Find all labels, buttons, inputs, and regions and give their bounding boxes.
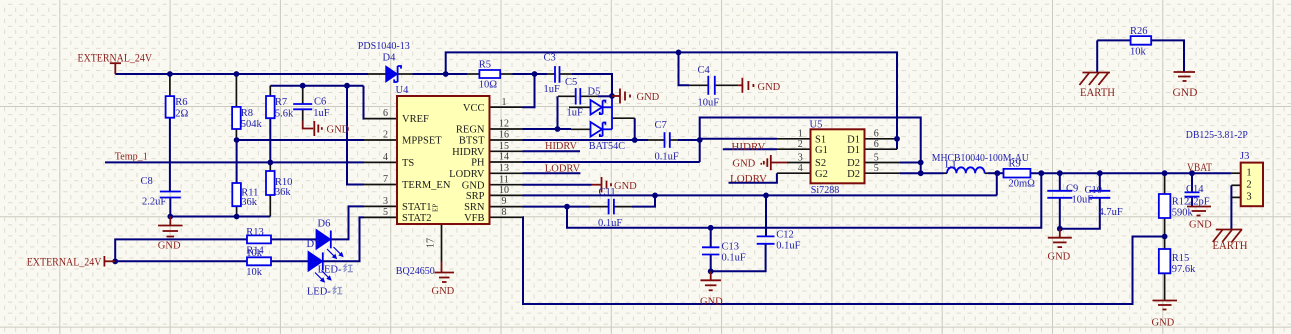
- svg-text:D2: D2: [847, 169, 860, 180]
- svg-text:97.6k: 97.6k: [1172, 264, 1196, 275]
- svg-text:R6: R6: [175, 97, 187, 108]
- svg-text:D4: D4: [383, 52, 397, 63]
- svg-text:U4: U4: [396, 85, 410, 96]
- svg-text:D6: D6: [318, 218, 331, 229]
- svg-text:15: 15: [499, 141, 509, 152]
- svg-text:R5: R5: [479, 59, 491, 70]
- svg-text:EARTH: EARTH: [1080, 87, 1115, 99]
- svg-text:10uF: 10uF: [698, 98, 720, 109]
- svg-text:GND: GND: [1173, 87, 1198, 99]
- svg-text:GND: GND: [1189, 220, 1212, 231]
- svg-text:Si7288: Si7288: [811, 185, 840, 196]
- svg-text:3: 3: [798, 152, 803, 163]
- svg-text:2Ω: 2Ω: [175, 108, 188, 119]
- svg-text:LED-: LED-: [307, 287, 331, 298]
- svg-text:1uF: 1uF: [313, 108, 330, 119]
- svg-text:EXTERNAL_24V: EXTERNAL_24V: [78, 51, 153, 65]
- svg-text:G1: G1: [815, 145, 828, 156]
- svg-text:R26: R26: [1130, 26, 1148, 37]
- svg-text:HIDRV: HIDRV: [731, 142, 765, 153]
- svg-text:R12: R12: [1172, 196, 1190, 207]
- svg-text:0.1uF: 0.1uF: [722, 253, 746, 264]
- svg-text:4: 4: [798, 163, 803, 174]
- svg-text:LODRV: LODRV: [730, 174, 767, 185]
- svg-text:8: 8: [502, 207, 507, 218]
- svg-text:10Ω: 10Ω: [479, 80, 498, 91]
- svg-text:14: 14: [499, 152, 509, 163]
- svg-text:C8: C8: [141, 176, 153, 187]
- svg-text:L1: L1: [945, 159, 957, 170]
- svg-text:C6: C6: [314, 96, 326, 107]
- svg-text:DB125-3.81-2P: DB125-3.81-2P: [1186, 130, 1248, 141]
- svg-text:13: 13: [499, 163, 509, 174]
- svg-text:C10: C10: [1085, 185, 1103, 196]
- svg-text:R7: R7: [275, 97, 287, 108]
- svg-text:GND: GND: [1048, 252, 1071, 263]
- svg-text:EARTH: EARTH: [1213, 240, 1248, 252]
- svg-text:R14: R14: [246, 246, 264, 257]
- svg-text:2: 2: [383, 130, 388, 141]
- svg-text:1: 1: [798, 129, 803, 140]
- svg-text:17: 17: [426, 238, 437, 248]
- svg-text:GND: GND: [1152, 318, 1175, 329]
- svg-text:D5: D5: [588, 86, 601, 97]
- svg-text:C4: C4: [698, 65, 711, 76]
- svg-text:Temp_1: Temp_1: [115, 152, 148, 163]
- svg-text:16: 16: [499, 130, 509, 141]
- svg-text:5: 5: [874, 152, 879, 163]
- svg-text:1: 1: [1246, 167, 1251, 178]
- svg-text:BQ24650: BQ24650: [396, 266, 435, 277]
- svg-text:36k: 36k: [275, 187, 292, 198]
- svg-text:2: 2: [1246, 180, 1251, 191]
- svg-text:C3: C3: [544, 52, 556, 63]
- svg-text:VBAT: VBAT: [1187, 162, 1212, 174]
- svg-text:GND: GND: [432, 286, 455, 297]
- svg-text:EXTERNAL_24V: EXTERNAL_24V: [27, 255, 102, 269]
- svg-text:EP: EP: [432, 204, 440, 212]
- svg-text:S2: S2: [815, 158, 826, 169]
- svg-text:C9: C9: [1066, 183, 1078, 194]
- svg-text:C11: C11: [599, 187, 616, 198]
- svg-text:SRP: SRP: [466, 191, 485, 202]
- svg-text:STAT1: STAT1: [402, 202, 432, 213]
- svg-text:BAT54C: BAT54C: [589, 141, 625, 152]
- svg-text:R15: R15: [1172, 253, 1190, 264]
- svg-text:20mΩ: 20mΩ: [1009, 178, 1036, 189]
- svg-text:3: 3: [383, 196, 388, 207]
- svg-text:5: 5: [874, 163, 879, 174]
- svg-text:VREF: VREF: [402, 114, 429, 125]
- svg-text:HIDRV: HIDRV: [452, 147, 485, 158]
- svg-text:0.1uF: 0.1uF: [776, 240, 800, 251]
- svg-text:R9: R9: [1009, 158, 1021, 169]
- svg-text:U5: U5: [810, 119, 823, 130]
- svg-text:1uF: 1uF: [567, 107, 584, 118]
- svg-text:C7: C7: [655, 120, 667, 131]
- svg-text:11: 11: [499, 174, 509, 185]
- svg-text:C13: C13: [722, 242, 740, 253]
- svg-text:3: 3: [1246, 192, 1251, 203]
- svg-text:SRN: SRN: [464, 202, 485, 213]
- svg-text:LED-: LED-: [318, 264, 342, 275]
- svg-text:1: 1: [502, 97, 507, 108]
- svg-text:TS: TS: [402, 158, 414, 169]
- svg-text:GND: GND: [327, 124, 350, 135]
- svg-text:G2: G2: [815, 169, 828, 180]
- svg-text:0.1uF: 0.1uF: [598, 218, 622, 229]
- svg-text:C12: C12: [776, 229, 794, 240]
- svg-text:LODRV: LODRV: [449, 169, 485, 180]
- svg-text:GND: GND: [733, 158, 756, 169]
- svg-text:5.6k: 5.6k: [275, 108, 294, 119]
- svg-text:D1: D1: [847, 145, 860, 156]
- svg-text:36k: 36k: [241, 197, 257, 208]
- svg-text:REGN: REGN: [456, 125, 485, 136]
- svg-text:D7: D7: [307, 239, 320, 250]
- svg-text:590k: 590k: [1172, 208, 1194, 219]
- svg-text:4.7uF: 4.7uF: [1099, 207, 1123, 218]
- svg-text:22pF: 22pF: [1188, 196, 1210, 207]
- svg-text:1uF: 1uF: [544, 84, 561, 95]
- svg-text:J3: J3: [1240, 151, 1249, 162]
- svg-text:GND: GND: [637, 92, 660, 103]
- svg-text:R8: R8: [241, 108, 253, 119]
- svg-text:4: 4: [383, 152, 388, 163]
- svg-text:GND: GND: [614, 181, 637, 192]
- svg-text:LODRV: LODRV: [545, 164, 581, 175]
- svg-text:10k: 10k: [246, 267, 263, 278]
- svg-text:GND: GND: [700, 297, 723, 308]
- svg-text:GND: GND: [758, 82, 781, 93]
- svg-text:BTST: BTST: [459, 136, 485, 147]
- svg-text:R13: R13: [246, 227, 264, 238]
- svg-text:10uF: 10uF: [1072, 194, 1094, 205]
- svg-text:STAT2: STAT2: [402, 213, 432, 224]
- svg-text:10: 10: [499, 185, 509, 196]
- svg-text:7: 7: [383, 174, 388, 185]
- svg-text:MPPSET: MPPSET: [402, 136, 442, 147]
- svg-text:6: 6: [874, 129, 879, 140]
- svg-text:TERM_EN: TERM_EN: [402, 180, 451, 191]
- svg-text:2.2uF: 2.2uF: [142, 197, 166, 208]
- svg-text:VFB: VFB: [464, 213, 484, 224]
- svg-text:D2: D2: [847, 158, 860, 169]
- svg-text:D1: D1: [847, 134, 860, 145]
- svg-text:PH: PH: [471, 158, 485, 169]
- svg-text:504k: 504k: [241, 119, 263, 130]
- svg-text:GND: GND: [158, 241, 181, 252]
- svg-text:6: 6: [874, 139, 879, 150]
- svg-text:GND: GND: [462, 180, 485, 191]
- svg-text:PDS1040-13: PDS1040-13: [358, 41, 410, 52]
- svg-text:C14: C14: [1186, 184, 1204, 195]
- svg-text:12: 12: [499, 119, 509, 130]
- svg-text:0.1uF: 0.1uF: [655, 151, 679, 162]
- svg-text:2: 2: [798, 139, 803, 150]
- svg-text:C5: C5: [565, 77, 577, 88]
- svg-text:10k: 10k: [1130, 47, 1147, 58]
- svg-text:6: 6: [383, 108, 388, 119]
- svg-text:HIDRV: HIDRV: [545, 141, 577, 152]
- svg-text:VCC: VCC: [463, 103, 485, 114]
- svg-text:S1: S1: [815, 134, 826, 145]
- svg-text:5: 5: [383, 207, 388, 218]
- svg-text:9: 9: [502, 196, 507, 207]
